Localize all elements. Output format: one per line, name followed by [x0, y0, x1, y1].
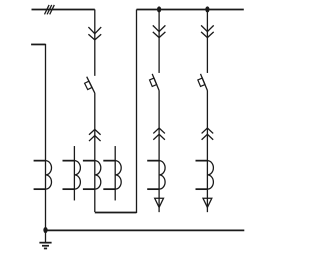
switch-fuse Q1 on feeder 1 — [85, 77, 95, 93]
wire: bottom neutral bus — [46, 229, 245, 231]
winding W5 on feeder 2 — [147, 161, 165, 190]
wire: right riser — [136, 9, 138, 213]
ground symbol — [39, 230, 51, 248]
arrow: open triangle terminal feeder 2 — [155, 198, 164, 207]
node: junction dot feeder 3 — [205, 6, 209, 12]
wire: left earth conductor — [45, 44, 47, 230]
winding W3 on feeder 1 — [83, 161, 101, 190]
winding W4 (floating) — [103, 146, 121, 200]
winding W2 (floating) — [63, 146, 81, 200]
drawout contact chevrons (up) on feeder 1 — [89, 129, 101, 141]
wire: bottom link to right section — [95, 211, 137, 213]
drawout contact chevrons (down) on feeder 2 — [153, 25, 166, 37]
node: junction dot feeder 2 — [157, 6, 161, 12]
switch-fuse Q3 on feeder 3 — [198, 74, 208, 91]
winding W6 on feeder 3 — [196, 161, 214, 190]
winding W1 on left conductor — [34, 161, 52, 190]
wire: top-left incoming bus — [32, 8, 95, 10]
conductor-count slashes on incoming bus — [45, 5, 55, 14]
drawout contact chevrons (up) on feeder 2 — [153, 128, 165, 140]
node: earth junction dot — [43, 227, 47, 233]
drawout contact chevrons (up) on feeder 3 — [202, 128, 214, 140]
drawout contact chevrons (down) on feeder 1 — [88, 27, 101, 40]
wire: feeder 1 lower segment — [94, 93, 96, 212]
wire: right top bus — [137, 8, 244, 10]
switch-fuse Q2 on feeder 2 — [150, 74, 160, 91]
wire: feeder 2 lower segment — [158, 90, 160, 212]
wire: feeder 3 upper drop — [206, 9, 208, 72]
wire: feeder 1 upper drop — [94, 9, 96, 75]
wire: feeder 3 lower segment — [206, 90, 208, 212]
wire: feeder 2 upper drop — [158, 9, 160, 72]
wire: left earth conductor top stub — [31, 43, 45, 45]
arrow: open triangle terminal feeder 3 — [203, 198, 212, 207]
drawout contact chevrons (down) on feeder 3 — [201, 25, 214, 37]
